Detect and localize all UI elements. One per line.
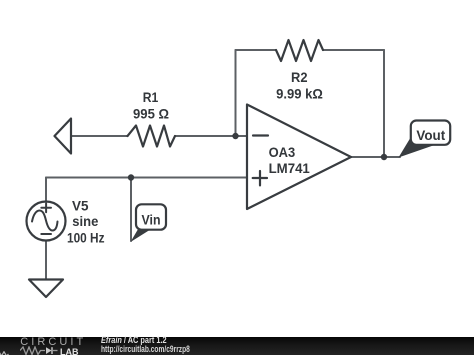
- wire V5 top lead: [45, 178, 47, 202]
- resistor R1: [128, 126, 176, 147]
- node junction at inverting input: [232, 133, 238, 139]
- wire arrow to R1: [71, 135, 128, 137]
- wire Vin stub: [130, 178, 132, 242]
- svg-text:sine: sine: [72, 213, 98, 229]
- svg-text:9.99 kΩ: 9.99 kΩ: [276, 85, 323, 101]
- op-amp minus sign: [253, 134, 268, 136]
- svg-text:R1: R1: [143, 89, 159, 105]
- CircuitLab logo text CIRCUIT: [20, 336, 86, 348]
- svg-text:V5: V5: [72, 197, 89, 213]
- CircuitLab logo waveform: [20, 346, 60, 355]
- resistor R2: [276, 40, 323, 61]
- wire noninverting input: [46, 177, 247, 179]
- V5 minus sign: [41, 233, 51, 235]
- footer bar: [0, 337, 474, 355]
- wire output: [351, 156, 400, 158]
- op-amp plus sign: [253, 171, 267, 185]
- net flag Vin tail: [131, 228, 153, 243]
- footer title line: [101, 335, 167, 345]
- net flag Vin bubble: [136, 204, 166, 229]
- svg-text:100 Hz: 100 Hz: [67, 230, 105, 246]
- V5 plus sign: [41, 203, 51, 212]
- net flag Vout bubble: [411, 121, 450, 145]
- wire R1 to op-amp inverting input: [175, 135, 247, 137]
- op-amp OA3 triangle: [247, 105, 351, 210]
- svg-text:LM741: LM741: [269, 160, 310, 176]
- wire V5 bottom lead: [45, 241, 47, 280]
- voltage source V5 circle: [27, 202, 66, 241]
- svg-text:995 Ω: 995 Ω: [133, 105, 169, 121]
- wire feedback right vertical: [383, 50, 385, 157]
- CircuitLab logo text LAB: [60, 347, 79, 355]
- svg-text:Vout: Vout: [416, 127, 445, 143]
- input terminal arrow: [55, 119, 72, 154]
- wire feedback top left: [236, 49, 277, 51]
- svg-text:Vin: Vin: [142, 211, 161, 227]
- svg-text:OA3: OA3: [269, 144, 296, 160]
- footer url line: [101, 344, 190, 354]
- svg-text:R2: R2: [291, 69, 308, 85]
- V5 sine waveform: [32, 211, 58, 231]
- decorative corner zigzag: [0, 351, 9, 355]
- ground: [29, 280, 63, 298]
- net flag Vout tail: [399, 136, 437, 158]
- wire feedback top right: [323, 49, 384, 51]
- wire feedback left vertical: [235, 50, 237, 136]
- node junction Vin: [128, 174, 134, 180]
- node junction at output: [381, 154, 387, 160]
